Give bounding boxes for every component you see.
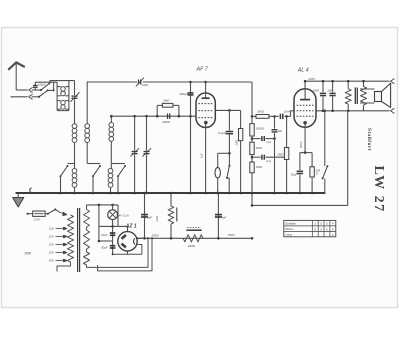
svg-text:Feld: Feld (155, 216, 159, 222)
svg-text:10pF: 10pF (142, 83, 149, 87)
svg-text:200kΩ: 200kΩ (255, 126, 265, 130)
svg-text:10kΩ: 10kΩ (256, 165, 264, 169)
svg-text:30kΩ: 30kΩ (257, 109, 265, 113)
svg-text:0,2µF: 0,2µF (218, 131, 226, 135)
svg-text:25mA: 25mA (299, 141, 303, 149)
svg-text:290V: 290V (151, 233, 160, 237)
svg-text:AL 4: AL 4 (297, 68, 309, 74)
svg-text:250V: 250V (227, 233, 236, 237)
svg-text:10nF: 10nF (284, 110, 291, 114)
svg-text:10nF: 10nF (313, 89, 320, 93)
svg-text:0,8A: 0,8A (34, 217, 40, 221)
svg-text:1nF: 1nF (327, 89, 332, 93)
svg-text:50µF: 50µF (101, 246, 108, 250)
svg-text:1µF: 1µF (200, 153, 204, 158)
svg-text:Schalter: Schalter (285, 222, 296, 226)
svg-text:240: 240 (48, 259, 54, 263)
svg-text:Staßfurt: Staßfurt (366, 128, 372, 151)
svg-text:55W: 55W (25, 252, 33, 256)
svg-text:Mitten: Mitten (285, 227, 294, 231)
svg-text:0,1µ: 0,1µ (266, 141, 271, 144)
svg-text:100: 100 (278, 130, 283, 133)
svg-text:1MΩ: 1MΩ (277, 152, 284, 156)
svg-text:Lang: Lang (285, 233, 292, 237)
svg-text:110: 110 (49, 227, 54, 231)
svg-text:100pF: 100pF (38, 83, 46, 87)
svg-text:220: 220 (48, 251, 54, 255)
svg-text:2MΩ: 2MΩ (162, 99, 170, 103)
svg-text:150: 150 (49, 243, 54, 247)
svg-text:300pF: 300pF (162, 120, 170, 124)
svg-text:30kΩ: 30kΩ (256, 146, 264, 150)
svg-text:X: X (326, 227, 328, 231)
svg-text:X: X (332, 227, 334, 231)
svg-text:0,1µ: 0,1µ (266, 160, 271, 163)
svg-text:X: X (332, 233, 334, 237)
svg-text:50µF: 50µF (291, 172, 298, 176)
svg-text:X: X (320, 227, 322, 231)
svg-text:AF 7: AF 7 (196, 67, 209, 73)
svg-text:4V 0,1A: 4V 0,1A (119, 213, 129, 217)
svg-text:LW 27: LW 27 (371, 166, 386, 213)
svg-text:10µF: 10µF (101, 233, 108, 237)
svg-text:AZ 1: AZ 1 (125, 224, 137, 230)
svg-text:125: 125 (49, 235, 54, 239)
svg-text:X: X (314, 227, 316, 231)
svg-text:8µF: 8µF (147, 216, 152, 220)
svg-text:100µF: 100µF (179, 92, 188, 96)
svg-text:245V: 245V (307, 77, 316, 81)
svg-text:1MΩ: 1MΩ (234, 140, 238, 146)
svg-text:8µF: 8µF (221, 216, 226, 220)
svg-text:940Ω: 940Ω (188, 244, 196, 248)
